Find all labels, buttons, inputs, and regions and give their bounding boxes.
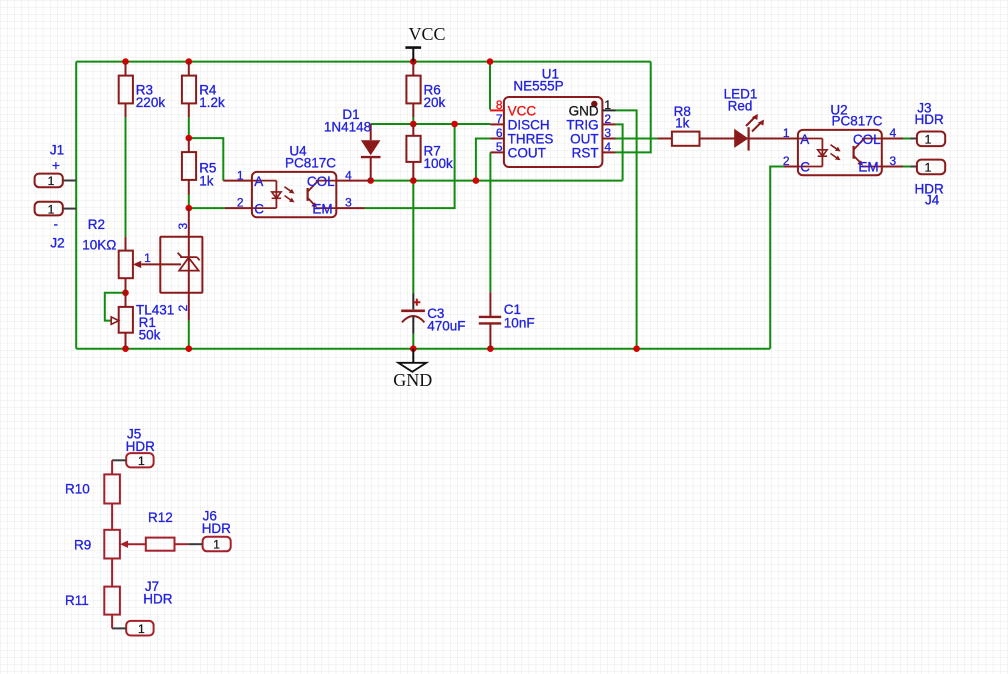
svg-text:470uF: 470uF [427,319,465,334]
svg-text:NE555P: NE555P [513,78,563,93]
svg-text:HDR: HDR [202,521,231,536]
svg-text:PC817C: PC817C [831,113,882,128]
wire R5 bottom node to U4 pin 2 [189,207,225,209]
pin 4 stub U1 [602,151,615,153]
wire U2 pin 3 to J4 [903,166,911,168]
resistor R3 [119,62,166,118]
svg-text:J2: J2 [50,236,64,251]
svg-text:RST: RST [572,145,599,160]
svg-text:THRES: THRES [508,131,554,146]
pin 2 stub U4 [225,207,252,209]
svg-text:2: 2 [604,112,611,126]
svg-text:HDR: HDR [126,439,155,454]
svg-text:R2: R2 [88,217,105,232]
svg-text:C: C [800,160,810,175]
connector J6 [189,509,232,552]
svg-text:2: 2 [176,305,190,312]
svg-text:C: C [254,201,264,216]
svg-text:DISCH: DISCH [508,117,550,132]
svg-text:HDR: HDR [914,112,943,127]
svg-text:1.2k: 1.2k [199,95,225,110]
svg-text:EM: EM [858,160,878,175]
svg-text:1: 1 [604,98,611,112]
wire U1 TRIG link [616,124,623,180]
LED LED1 [724,87,764,151]
ground symbol GND [393,349,432,391]
wire U1 THRES to node [476,139,491,181]
timer U1 NE555P [490,67,616,168]
svg-text:J1: J1 [50,143,64,158]
pin 1 stub U1 (GND) [602,109,615,111]
pin 3 stub U1 [602,138,615,140]
internal transistor U2 [852,146,854,159]
connector J3 [911,100,946,146]
junction at D1 cathode node [367,177,374,184]
optocoupler U4 PC817C [223,144,370,218]
connector J1 [35,143,77,189]
svg-text:4: 4 [890,126,897,140]
svg-text:PC817C: PC817C [285,155,336,170]
connector J4 [911,160,946,208]
svg-text:1: 1 [237,168,244,182]
svg-text:1: 1 [925,161,932,175]
internal LED U4 [252,181,277,209]
svg-text:1: 1 [925,132,932,146]
wire left vertical J1/J2 [75,62,77,349]
resistor R8 [672,104,700,146]
resistor R12 [146,510,189,550]
svg-text:3: 3 [890,154,897,168]
svg-text:COL: COL [853,132,881,147]
svg-text:TRIG: TRIG [566,117,598,132]
svg-text:3: 3 [345,196,352,210]
resistor R6 [406,62,445,118]
wire R5 bottom lead [188,195,190,209]
internal transistor U4 [307,188,309,201]
pin 7 stub U1 [490,123,504,125]
junction at VCC rail / U1 pin 8 [487,58,494,65]
potentiometer R9 [74,530,146,559]
svg-text:OUT: OUT [570,131,599,146]
wire DISCH row node [371,123,491,125]
wire VCC rail to U1 pin 8 [489,62,491,110]
pin 2 stub U2 [784,166,798,168]
svg-text:GND: GND [569,103,599,118]
svg-text:COL: COL [307,174,335,189]
svg-text:+: + [52,158,60,173]
wire R4 bottom to R5 top [188,117,190,138]
svg-text:1: 1 [138,622,145,636]
svg-text:4: 4 [604,140,611,154]
svg-text:220k: 220k [136,95,166,110]
shunt regulator TL431 [136,208,202,321]
svg-text:R12: R12 [148,510,173,525]
svg-text:4: 4 [345,168,352,182]
resistor R4 [182,62,225,118]
junction at GND rail / TL431 [186,345,193,352]
svg-text:VCC: VCC [508,103,537,118]
svg-text:1k: 1k [199,173,214,188]
capacitor C1 [479,292,535,348]
wire U2 pin 4 to J3 [903,138,911,140]
svg-text:1: 1 [213,538,220,552]
svg-text:VCC: VCC [408,24,445,44]
svg-text:J4: J4 [925,193,940,208]
rheostat R1 [111,293,160,349]
svg-text:1: 1 [144,251,151,265]
resistor R7 [406,124,453,181]
wire R6 bottom to node [412,117,414,124]
svg-text:EM: EM [312,201,332,216]
svg-text:1k: 1k [675,115,690,130]
optocoupler U2 PC817C [783,103,903,176]
pin 3 stub U2 [882,166,903,168]
junction at GND rail / C1 [487,345,494,352]
svg-text:R11: R11 [65,593,89,608]
svg-text:2: 2 [237,196,244,210]
svg-text:50k: 50k [139,328,161,343]
pin 2 stub U1 [602,123,615,125]
connector J2 [35,202,77,251]
pin 1 marker dot U1 [591,101,597,107]
pin 3 stub U4 [336,207,364,209]
svg-text:3: 3 [604,126,611,140]
junction at R6/DISCH node [410,121,417,128]
wire OUT net (red) R8 to U2 [700,138,798,140]
connector J5 [112,427,155,469]
wire U1 OUT short [616,138,658,140]
svg-text:Red: Red [728,99,753,114]
electrolytic capacitor C3 [401,293,465,334]
junction at VCC rail / R3 [122,58,129,65]
wire C3 bottom to GND rail [412,334,414,349]
resistor R11 [65,559,120,629]
wire U2 pin 2 to GND rail [770,167,784,349]
svg-text:1: 1 [48,202,55,216]
VCC power symbol [405,24,445,62]
light arrows U4 [285,187,292,200]
wire VCC top rail [76,61,651,63]
wire U4 EM to DISCH node [365,124,455,208]
junction at R5 bottom node [186,205,193,212]
wire R5 top node to U4 pin 1 [189,138,224,181]
internal LED U2 [798,139,823,167]
junction at VCC rail / R4 [186,58,193,65]
junction at GND rail / C3 [410,345,417,352]
wire node to C3 top [412,181,414,294]
svg-text:1: 1 [783,126,790,140]
light arrows U2 [831,145,838,158]
svg-text:A: A [254,174,263,189]
junction at THRES node [473,177,480,184]
wire U1 COUT to C1 [489,152,491,292]
junction at DISCH/EM node [451,121,458,128]
svg-text:R10: R10 [65,481,90,496]
pin 4 stub U2 [882,138,903,140]
svg-text:GND: GND [393,370,432,390]
potentiometer R2 [82,217,141,293]
wire R3 bottom to R2 top [125,117,127,236]
wire OUT net (red) R8 left lead [658,138,672,140]
svg-text:10KΩ: 10KΩ [82,237,116,252]
junction at R7 bottom node [410,177,417,184]
junction at R5 top node [186,135,193,142]
svg-text:HDR: HDR [143,592,172,607]
svg-text:8: 8 [496,98,503,112]
svg-text:1: 1 [138,454,145,468]
wire TL431 anode to GND rail [188,321,190,349]
pin 8 stub U1 (VCC) [490,109,504,111]
junction at GND rail / R1 [122,345,129,352]
wire R2 wiper to R1 wiper [105,293,126,321]
wire GND bottom rail [76,348,770,350]
connector J7 [112,579,173,636]
svg-text:-: - [54,216,59,231]
wire U1 GND pin to GND rail [616,110,637,348]
junction at R2 bottom wiper node [122,290,129,297]
pin 4 stub U4 [336,180,370,182]
svg-text:100k: 100k [424,156,454,171]
svg-text:1N4148: 1N4148 [324,120,371,135]
junction at GND rail / U1 GND [633,345,640,352]
pin 1 stub U4 [223,180,252,182]
svg-text:20k: 20k [424,95,446,110]
svg-text:5: 5 [496,140,503,154]
svg-text:10nF: 10nF [504,316,535,331]
junction at VCC rail / VCC symbol [410,58,417,65]
svg-text:1: 1 [48,174,55,188]
svg-text:3: 3 [176,223,190,230]
svg-text:2: 2 [783,154,790,168]
svg-text:A: A [800,132,809,147]
pin 6 stub U1 [490,138,504,140]
svg-text:7: 7 [496,112,503,126]
wire THRES/TRIG row [371,180,623,182]
resistor R5 [182,138,217,194]
svg-text:6: 6 [496,126,503,140]
wire U1 RST to VCC rail [616,62,651,153]
svg-text:R9: R9 [74,537,91,552]
resistor R10 [65,460,120,530]
pin 5 stub U1 [490,151,504,153]
diode D1 1N4148 [324,107,381,181]
svg-text:COUT: COUT [508,145,546,160]
